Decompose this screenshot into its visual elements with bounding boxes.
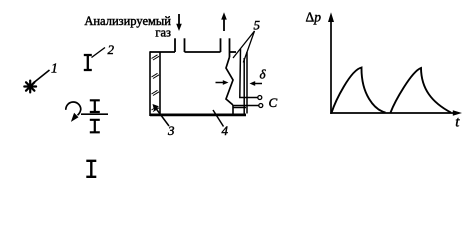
svg-text:3: 3 [167,123,175,138]
bottom wall [150,114,246,117]
pressure pulse 2 [391,68,452,113]
leader with arrow to label 3 [156,109,169,127]
hatch marks [152,55,160,112]
chamber right wall [246,52,248,114]
svg-text:2: 2 [108,42,115,57]
leader to label 4 [213,110,224,127]
lower obturator blade I [86,161,96,177]
leader lines to label 5 [233,31,255,58]
chopper blade I (top) [90,100,100,112]
svg-text:Δp: Δp [306,10,322,25]
left pipe stub left [174,38,176,52]
window 3: hatched left wall [150,51,160,116]
pressure pulse 1 [332,68,386,113]
wire from fixed plate [234,105,259,107]
wire from membrane electrode [240,49,258,98]
leader line to label 1 [35,70,50,82]
inlet arrow (gas in, down) [178,14,180,25]
graph y-axis [330,18,332,114]
terminal circle upper [258,96,262,100]
graph x-axis [330,112,454,114]
left pipe stub right [184,38,186,52]
svg-text:δ: δ [260,67,267,82]
svg-text:4: 4 [222,123,229,138]
terminal circle lower [259,104,263,108]
top wall right remnant [230,51,237,53]
outlet arrow (gas out, up) [223,20,225,32]
chamber walls [150,38,246,115]
right pipe stub right / right wall top [229,38,231,57]
leader line to label 2 [92,48,106,58]
svg-text:газ: газ [155,26,171,40]
chopper blade I (bottom) [90,120,100,133]
chopper axis line [81,113,108,115]
fixed electrode plate [243,58,245,114]
top wall left segment [150,51,175,53]
radiation source (star) 1 [24,81,36,93]
gap arrow right [255,83,262,85]
top wall middle segment [185,51,221,53]
obturator window I (symbol 2) [84,55,92,70]
svg-text:C: C [269,95,278,110]
right pipe stub left [220,38,222,52]
membrane bottom mount [233,105,246,114]
membrane (corrugated) [226,57,233,105]
svg-text:1: 1 [51,61,58,76]
svg-text:5: 5 [254,18,261,33]
rotation arrow (chopper rotation) [66,102,81,115]
gap arrow left [216,82,225,84]
